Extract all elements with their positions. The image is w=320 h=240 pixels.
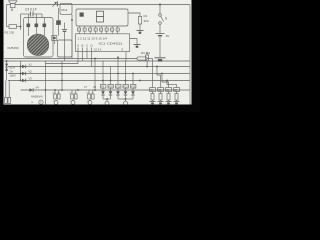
wire IC1 right to ground: [130, 39, 137, 45]
wire blockA down: [58, 25, 60, 36]
resistor R5: [158, 88, 164, 105]
wires right staircase: [153, 59, 177, 88]
wire module right down: [71, 14, 73, 58]
diodes V9-V13 vertical: [101, 88, 135, 99]
node module: [71, 19, 73, 21]
diode row line 3: [8, 80, 190, 82]
diode row line 4: [21, 89, 191, 91]
pin squares row: [78, 28, 120, 31]
wire vertical from C3 line down to bus: [20, 14, 22, 30]
seven segment digit 8: [97, 11, 104, 16]
wires IC1 outputs A B C D: [78, 48, 92, 67]
svg-text:R1: R1: [144, 14, 148, 18]
svg-text:V1: V1: [29, 63, 33, 67]
node top rail S: [159, 4, 161, 6]
bus line 1: [4, 58, 137, 60]
LED indicators left-mid: [54, 101, 58, 105]
resistor R3 1k2: [141, 51, 151, 67]
battery GB 6V: [156, 33, 170, 57]
resistor R8 inline: [137, 57, 147, 60]
arrow junction: [117, 56, 119, 58]
svg-text:9014: 9014: [61, 8, 67, 12]
svg-text:C3 0.1F: C3 0.1F: [25, 8, 37, 12]
letterbox bottom bar: [0, 105, 200, 113]
COB disc: [27, 34, 49, 56]
sub box: [58, 40, 73, 57]
svg-text:B: B: [82, 43, 84, 47]
pin digits: [78, 30, 119, 32]
wires trimmer leads: [28, 14, 44, 36]
svg-text:V10: V10: [108, 86, 113, 89]
resistor pairs bottom left-mid: [54, 90, 94, 99]
resistor R7: [174, 88, 180, 105]
svg-text:R5: R5: [158, 88, 162, 92]
svg-text:IC1 CD4511: IC1 CD4511: [99, 41, 124, 45]
svg-text:6V: 6V: [166, 34, 170, 38]
LED indicators mid: [105, 101, 109, 105]
diode VD4: [30, 86, 43, 99]
indicator circle 5: [32, 100, 44, 105]
bus line 2 matrix top: [4, 60, 190, 62]
svg-text:A: A: [77, 43, 79, 47]
speaker B: [7, 1, 18, 12]
diode VD1: [22, 63, 32, 69]
wire merge pairs: [103, 98, 133, 101]
letterbox left bar: [0, 0, 4, 112]
svg-text:V2: V2: [29, 70, 33, 74]
label boxes V9-V13: [101, 85, 136, 89]
transistor Q1 9014: [52, 1, 72, 14]
svg-text:1 2 12 11 10 9 15 1/4: 1 2 12 11 10 9 15 1/4: [78, 38, 108, 41]
diode VD2: [22, 70, 32, 76]
switch S: [159, 5, 168, 33]
svg-text:V12: V12: [123, 86, 128, 89]
junction dots bottom buses: [6, 58, 168, 91]
thyristor SCR: [5, 61, 16, 81]
svg-text:NH08(V4): NH08(V4): [31, 95, 43, 99]
wire left vertical: [6, 5, 8, 27]
svg-text:300: 300: [144, 19, 149, 23]
ground R1: [137, 31, 144, 34]
diode row line 1: [8, 66, 190, 68]
wire block down: [58, 8, 60, 20]
trimmer block A: [56, 20, 61, 25]
resistor R4: [150, 88, 156, 105]
ground battery: [155, 58, 166, 62]
capacitor C2 polarized: [62, 23, 67, 62]
wire blockB down: [53, 41, 55, 45]
resistor R6: [166, 88, 172, 105]
matrix left edge: [45, 61, 47, 105]
svg-text:16 2 4: 16 2 4: [94, 47, 102, 51]
svg-text:100V: 100V: [10, 74, 16, 78]
svg-text:V13: V13: [131, 86, 136, 89]
bus line 3: [46, 63, 79, 65]
paper background: [0, 0, 200, 112]
bottom-left small resistors: [5, 81, 11, 104]
letterbox right bar: [192, 0, 201, 112]
wire IC1 pin5 down: [125, 52, 127, 61]
resistor R2 220: [5, 25, 21, 35]
svg-text:R3 1k2: R3 1k2: [141, 51, 151, 55]
op IC1 CD4511: [76, 34, 130, 52]
diode row line 2: [8, 73, 190, 75]
capacitor C3 0.1F: [21, 8, 43, 18]
svg-text:D: D: [91, 43, 93, 47]
svg-text:R7: R7: [174, 88, 178, 92]
node R2-C junction: [20, 26, 22, 28]
svg-text:1A: 1A: [10, 70, 13, 74]
svg-text:C: C: [86, 43, 88, 47]
svg-text:R2 220: R2 220: [5, 31, 15, 35]
resistor R1 300: [128, 13, 149, 31]
diode VD3: [22, 77, 32, 83]
module box CM5150: [7, 18, 53, 58]
svg-text:V3: V3: [29, 77, 33, 81]
wire right rail: [189, 5, 191, 105]
svg-text:CM5150: CM5150: [7, 46, 19, 50]
svg-text:R6: R6: [166, 88, 170, 92]
pin stubs: [79, 26, 118, 34]
trimmer caps inside module: [27, 24, 47, 28]
svg-text:R4: R4: [150, 88, 154, 92]
wire mid verticals: [62, 59, 133, 91]
ground IC1: [134, 45, 141, 48]
display module box: [76, 9, 128, 26]
trimmer block B: [52, 36, 57, 41]
svg-text:SCR: SCR: [10, 66, 16, 70]
wire top rail: [15, 4, 190, 6]
value labels resistor pairs: [52, 92, 94, 103]
svg-text:V4: V4: [36, 86, 40, 90]
